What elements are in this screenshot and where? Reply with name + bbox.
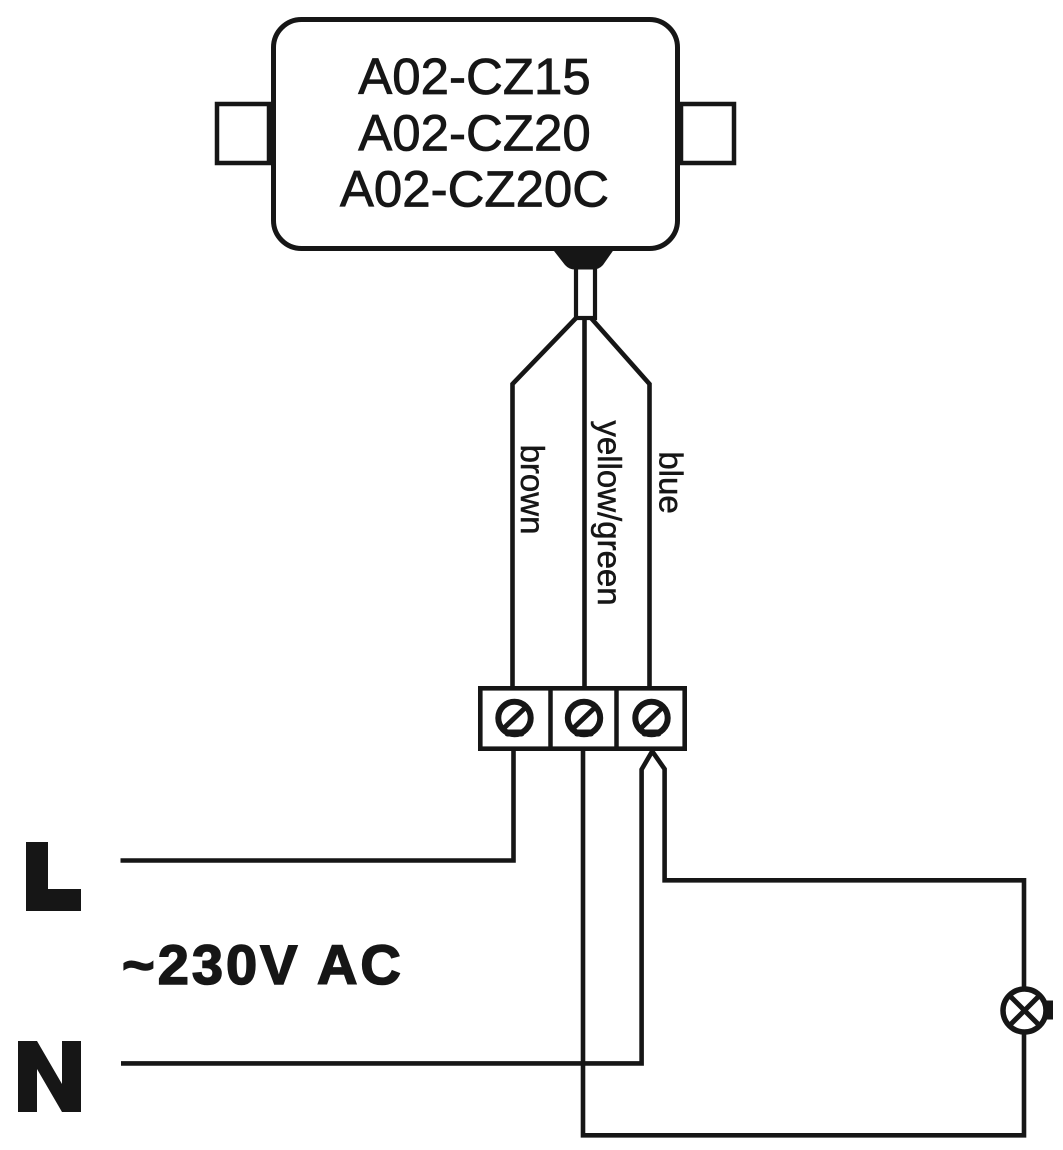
svg-text:~230V AC: ~230V AC: [122, 933, 404, 996]
svg-text:A02-CZ20C: A02-CZ20C: [340, 161, 609, 218]
svg-text:blue: blue: [653, 451, 690, 513]
svg-text:A02-CZ15: A02-CZ15: [358, 48, 590, 105]
svg-text:brown: brown: [514, 445, 551, 535]
svg-text:A02-CZ20: A02-CZ20: [358, 105, 590, 162]
svg-text:yellow/green: yellow/green: [591, 420, 628, 605]
